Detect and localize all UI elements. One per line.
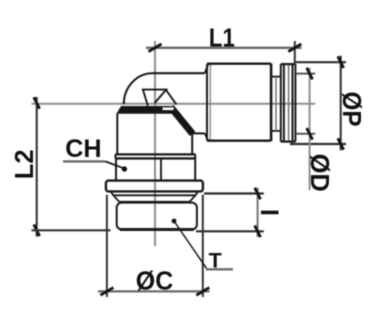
funnel tail line	[166, 90, 176, 105]
elbow body right edge	[191, 133, 193, 155]
release ring top edge	[281, 63, 296, 65]
OD bottom tick	[307, 128, 313, 140]
elbow body chamfer edge (thin diagonal)	[179, 113, 193, 134]
L1 left tick	[149, 44, 162, 52]
cone bottom line	[119, 201, 190, 203]
hex left edge	[115, 158, 117, 181]
svg-text:ØC: ØC	[136, 267, 173, 295]
svg-text:CH: CH	[65, 135, 101, 163]
cone bevel left	[113, 195, 119, 202]
elbow outer arc	[124, 73, 153, 104]
collar right edge	[194, 154, 196, 158]
svg-text:L2: L2	[11, 149, 39, 179]
white notch in seal band	[163, 107, 174, 110]
cartridge bottom edge	[207, 139, 271, 141]
dimension OP line	[340, 56, 342, 151]
svg-text:ØP: ØP	[337, 92, 366, 127]
CH underline	[63, 160, 105, 162]
collet neck mid line	[275, 77, 277, 131]
dimension L1 right extension	[294, 41, 296, 63]
dimension I line	[257, 188, 259, 237]
cone bevel right	[190, 195, 196, 202]
cartridge bottom-left chamfer	[205, 133, 208, 140]
cartridge right edge	[270, 64, 273, 142]
elbow body left edge	[116, 114, 118, 155]
washer lip trapezoid	[111, 191, 199, 195]
release ring bottom edge	[281, 141, 296, 143]
svg-text:I: I	[255, 209, 283, 216]
dimension L1 line	[146, 47, 302, 49]
dimension OC right extension	[202, 195, 204, 297]
thread bottom edge	[120, 228, 194, 231]
OD top tick	[307, 68, 313, 80]
L2 bottom extension	[32, 229, 111, 231]
T underline	[206, 268, 233, 270]
washer flange	[106, 181, 203, 192]
collar left edge	[115, 154, 117, 158]
collar top edge (body bottom)	[115, 153, 195, 155]
seal band (filled)	[116, 106, 176, 114]
neck bottom edge (under port)	[192, 132, 205, 134]
cartridge inner left line	[209, 65, 211, 141]
dimension OP top extension	[295, 61, 346, 63]
dimension OD bottom extension	[296, 133, 315, 135]
collet neck bottom edge	[271, 130, 281, 132]
hex top edge	[115, 157, 196, 159]
OC left tick	[100, 288, 113, 296]
cartridge top-left chamfer	[205, 65, 208, 74]
collet neck top edge	[271, 76, 281, 78]
release ring mid gray line	[288, 65, 290, 141]
svg-text:ØD: ØD	[305, 154, 333, 192]
svg-text:L1: L1	[209, 24, 235, 53]
cartridge left edge	[206, 64, 208, 140]
dimension OP bottom extension	[290, 143, 346, 145]
CH leader	[105, 161, 124, 168]
dimension OC left extension	[106, 195, 108, 297]
OC right tick	[196, 288, 209, 296]
release ring end double line a	[292, 64, 294, 142]
OP top tick	[338, 56, 344, 68]
hex right edge	[194, 158, 196, 181]
OP bottom tick	[338, 138, 344, 150]
cartridge top edge	[207, 63, 271, 65]
CH leader dot	[122, 166, 127, 171]
dimension OC line	[98, 290, 210, 292]
L2 top tick	[34, 97, 40, 109]
hex facet line	[160, 160, 162, 181]
I top tick	[255, 188, 261, 200]
T leader dot	[172, 219, 177, 224]
I bottom tick	[255, 226, 261, 238]
horizontal centerline (axis of tube port, also L2 top extension)	[32, 103, 316, 105]
vertical centerline (axis of threaded leg)	[154, 41, 156, 246]
dimension L2 line	[36, 97, 38, 237]
T leader	[174, 221, 207, 268]
thread body (rounded)	[117, 203, 197, 230]
release ring end double line b	[294, 64, 296, 142]
L2 bottom tick	[34, 225, 40, 237]
dimension I bottom extension	[196, 230, 264, 232]
funnel mark (top cone)	[143, 90, 166, 106]
L1 right tick	[288, 44, 301, 52]
dimension I top extension	[204, 192, 264, 194]
port top edge	[152, 72, 205, 74]
dimension OD top extension	[296, 73, 315, 75]
dimension OD line	[309, 68, 311, 190]
seal band diagonal stripe	[171, 107, 193, 134]
release ring left edge pair	[280, 64, 282, 142]
